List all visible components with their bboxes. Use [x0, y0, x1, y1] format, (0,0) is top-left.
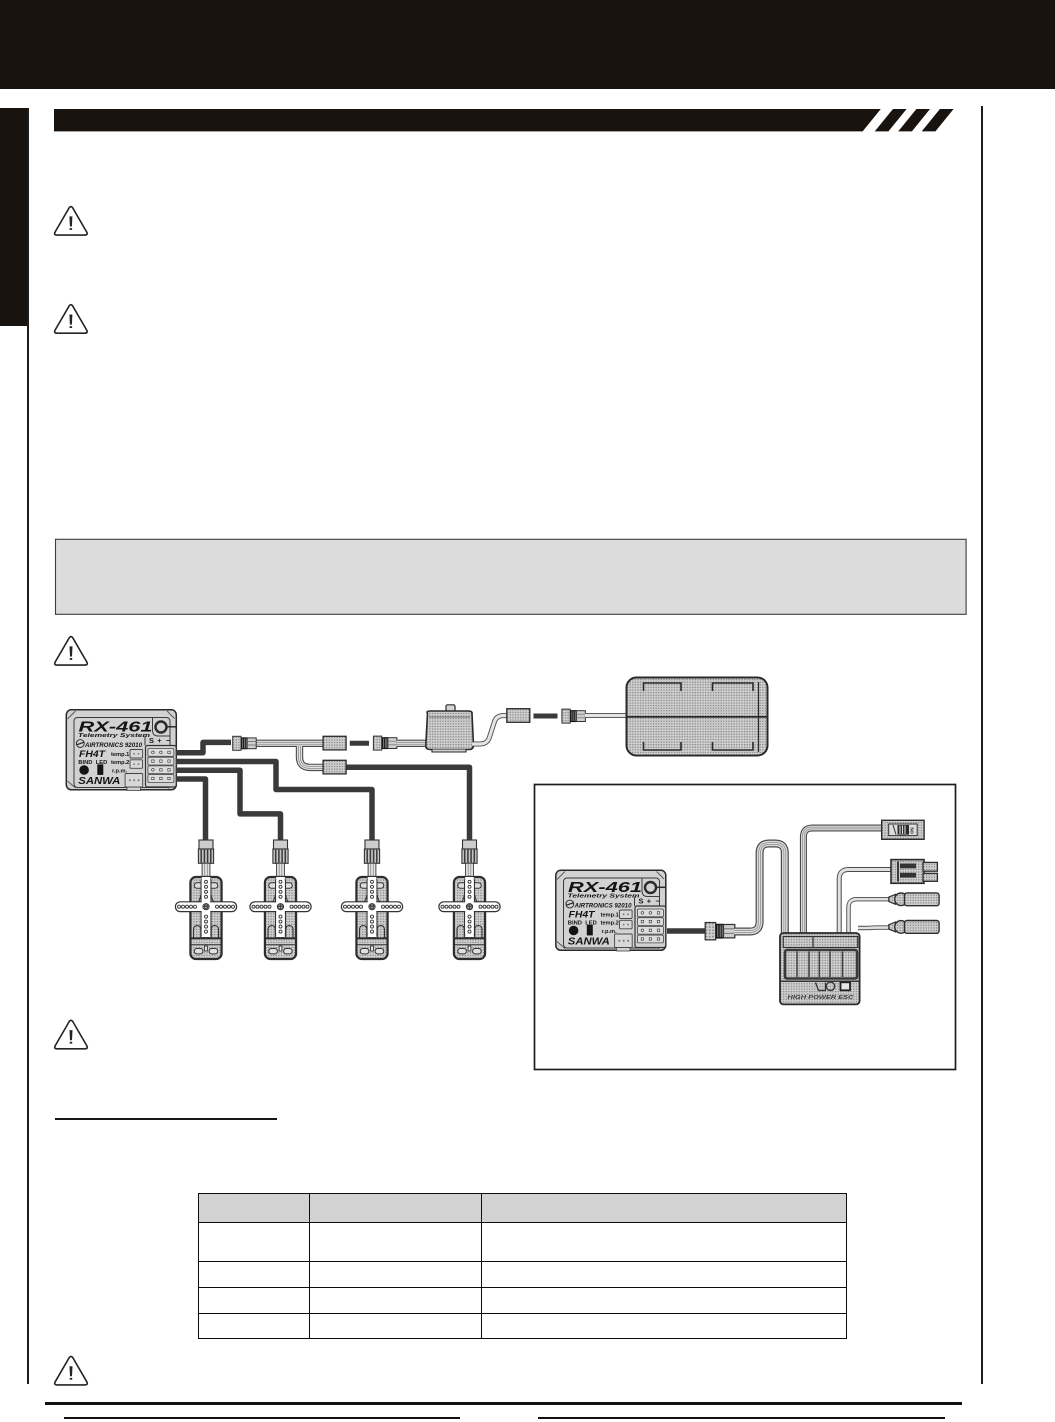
top title bar	[0, 0, 1055, 89]
inset frame	[535, 785, 956, 1070]
warning triangle 5	[55, 1356, 88, 1385]
connector: bullet 1	[889, 893, 939, 906]
left page border	[27, 108, 29, 1384]
switch	[426, 705, 474, 752]
servo 3	[341, 840, 402, 959]
receiver RX-461 (main)	[66, 710, 176, 791]
battery pack	[627, 678, 768, 756]
connector: battery black plug	[562, 709, 586, 723]
lead: ESC to bullet connector 1	[849, 899, 890, 935]
connector: switch output	[507, 709, 530, 723]
lead: ESC to ON/OFF switch connector	[803, 828, 883, 935]
connector: Y-harness output A (to switch)	[323, 736, 346, 750]
lead: ESC to bullet connector 2	[858, 925, 889, 930]
svg-text:ON: ON	[910, 828, 915, 834]
connector: receiver-side black plug	[233, 736, 257, 750]
warning triangle 4	[55, 1020, 88, 1049]
Y-harness branch lead	[300, 746, 324, 767]
wire: Y-harness branch to servo 4	[346, 767, 470, 841]
connector: ON/OFF switch plug	[882, 820, 924, 839]
lead: switch to battery connector	[472, 716, 508, 744]
svg-text:HIGH POWER ESC: HIGH POWER ESC	[788, 995, 855, 1001]
connector: switch-lead black plug	[373, 736, 397, 750]
joining bar B	[534, 714, 558, 719]
footer line left	[64, 1417, 460, 1419]
warning triangle 2	[55, 305, 88, 334]
wire: receiver ch port to servo 1	[176, 779, 206, 841]
footer rule	[45, 1402, 962, 1405]
lead: plug to battery	[585, 713, 628, 718]
section underline	[55, 1118, 277, 1120]
ESC unit	[780, 933, 860, 1004]
lead: ESC to battery connector	[839, 870, 892, 936]
connector: bullet 2	[889, 921, 939, 934]
footer line right	[538, 1417, 945, 1419]
spec table	[198, 1193, 847, 1339]
lead: plug to switch	[397, 740, 427, 747]
right page border	[981, 106, 983, 1384]
Y-harness ribbon lead	[254, 740, 323, 747]
connector: ESC receiver plug	[705, 923, 735, 940]
lead: plug to ESC (inverted U)	[734, 844, 785, 936]
connector: battery plug pair	[891, 860, 937, 884]
left chapter tab	[0, 108, 28, 326]
wire: receiver ch port to servo 2	[176, 770, 281, 841]
instruction gray box	[56, 539, 967, 614]
servo 1	[175, 840, 236, 959]
receiver RX-461 (inset)	[556, 870, 666, 951]
wire: receiver ch port to servo 3	[176, 762, 372, 842]
wire: inset receiver to ESC plug	[667, 928, 706, 934]
warning triangle 3	[55, 637, 88, 666]
joining bar A	[350, 741, 369, 746]
wire: receiver battery port to Y-harness connector	[176, 742, 231, 752]
warning triangle 1	[55, 207, 88, 236]
servo 2	[250, 840, 311, 959]
servo 4	[439, 840, 500, 959]
section header bar	[54, 109, 954, 131]
connector: Y-harness output B (to servo 4)	[323, 760, 346, 774]
